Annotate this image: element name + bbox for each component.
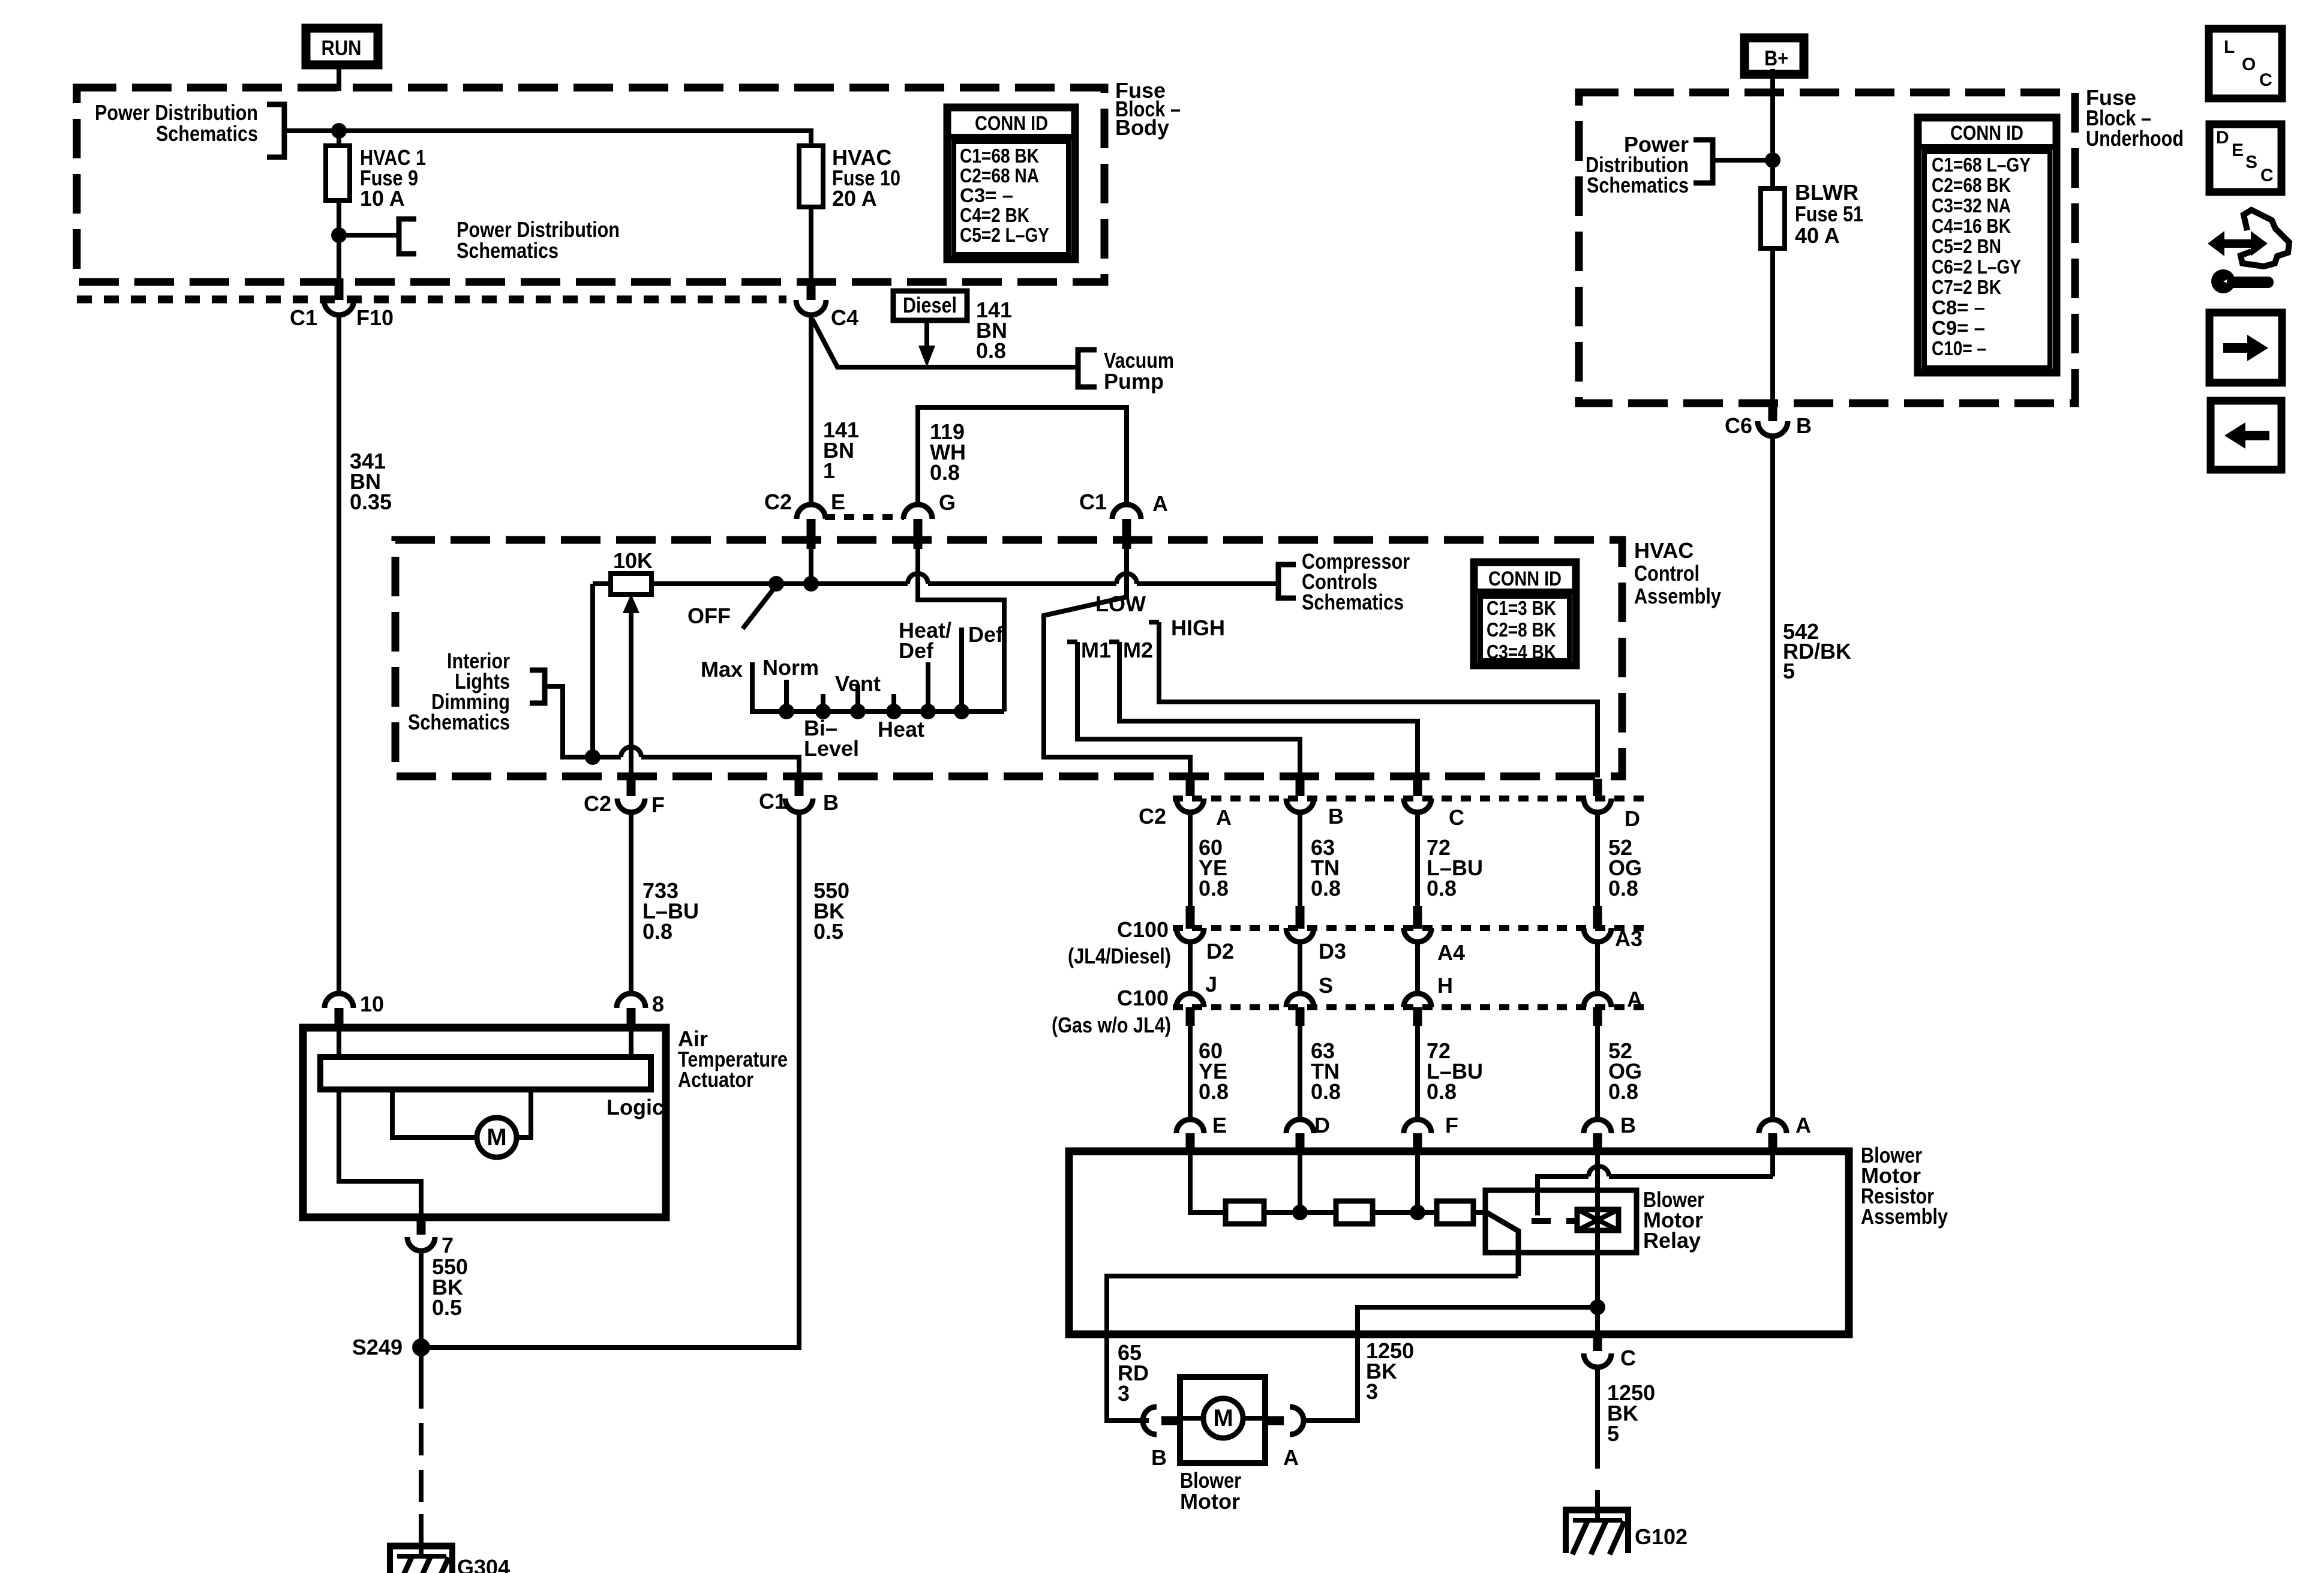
Diesel option box bbox=[893, 291, 967, 320]
svg-text:E: E bbox=[831, 490, 845, 514]
connector pin 10 (actuator) bbox=[325, 992, 384, 1029]
label Blower Motor bbox=[1180, 1468, 1241, 1514]
svg-text:C1: C1 bbox=[759, 789, 786, 813]
svg-text:C: C bbox=[2259, 70, 2272, 90]
svg-text:J: J bbox=[1205, 972, 1217, 996]
svg-text:0.8: 0.8 bbox=[1427, 876, 1457, 900]
svg-text:C10= –: C10= – bbox=[1932, 337, 1986, 359]
wire 52 OG 0.8 (lower) bbox=[1598, 1026, 1642, 1119]
connector pin 7 (actuator) bbox=[407, 1217, 454, 1257]
mode position Def bbox=[954, 622, 1004, 719]
svg-text:C5=2 BN: C5=2 BN bbox=[1932, 235, 2001, 257]
connector row C100 gas dashed line bbox=[1173, 1004, 1647, 1010]
blower motor resistor assembly box bbox=[1069, 1151, 1849, 1334]
label HIGH bbox=[1171, 616, 1225, 640]
connector C6 pin B bbox=[1725, 401, 1812, 438]
svg-text:Control: Control bbox=[1634, 561, 1700, 586]
svg-text:0.5: 0.5 bbox=[432, 1295, 462, 1320]
svg-text:OFF: OFF bbox=[687, 604, 731, 628]
svg-text:5: 5 bbox=[1783, 659, 1795, 683]
svg-text:C8= –: C8= – bbox=[1932, 296, 1985, 319]
wire 60 YE 0.8 (upper) bbox=[1190, 812, 1229, 907]
svg-text:0.35: 0.35 bbox=[350, 490, 392, 514]
svg-text:0.8: 0.8 bbox=[976, 338, 1006, 363]
svg-text:Logic: Logic bbox=[606, 1095, 664, 1119]
svg-text:BLWR: BLWR bbox=[1795, 180, 1858, 205]
svg-text:Assembly: Assembly bbox=[1861, 1204, 1948, 1229]
bracket Vacuum Pump bbox=[1078, 350, 1097, 387]
wire RUN to fuse block bbox=[337, 69, 341, 91]
icon LOC box bbox=[2209, 29, 2282, 98]
wire fuse 51 to C6 bbox=[1770, 248, 1775, 404]
svg-text:C6: C6 bbox=[1725, 413, 1752, 438]
node: junction D tap bbox=[1292, 1205, 1308, 1220]
wire fuse 10 to C4 connector bbox=[809, 207, 813, 283]
blower motor box bbox=[1180, 1377, 1265, 1463]
svg-text:Def: Def bbox=[899, 638, 934, 663]
svg-text:HVAC: HVAC bbox=[1634, 538, 1694, 563]
label Power Distribution Schematics (left) bbox=[95, 100, 258, 146]
fuse F10 (HVAC Fuse 10 20 A) bbox=[799, 146, 823, 207]
svg-text:10: 10 bbox=[360, 992, 384, 1016]
label B (motor pin) bbox=[1151, 1445, 1167, 1470]
blower motor relay outline bbox=[1485, 1190, 1637, 1253]
B+ battery voltage terminal bbox=[1744, 38, 1804, 74]
connector pin B (blower motor) bbox=[1143, 1407, 1181, 1434]
wire 72 L-BU 0.8 (upper) bbox=[1418, 812, 1483, 907]
svg-text:A: A bbox=[1216, 805, 1232, 830]
svg-text:CONN ID: CONN ID bbox=[1488, 568, 1562, 590]
connector pin A (blower motor) bbox=[1264, 1407, 1304, 1434]
svg-text:A: A bbox=[1152, 491, 1168, 516]
svg-text:A4: A4 bbox=[1437, 940, 1465, 965]
svg-text:Schematics: Schematics bbox=[156, 121, 258, 146]
fuse F9 (HVAC 1 Fuse 9 10 A) bbox=[326, 146, 350, 200]
connector C100 (Gas w/o JL4) pins J S H A bbox=[1052, 972, 1643, 1037]
svg-text:Schematics: Schematics bbox=[1302, 590, 1404, 614]
wire 119 WH loop bbox=[918, 407, 1127, 506]
label M1 bbox=[1081, 638, 1111, 662]
resistor R2 bbox=[1336, 1201, 1373, 1224]
wire E to resistor chain bbox=[1190, 1151, 1228, 1212]
connector pin 8 (actuator) bbox=[617, 992, 664, 1029]
svg-text:0.8: 0.8 bbox=[1608, 1079, 1638, 1104]
mode position Heat bbox=[878, 694, 924, 742]
label Fuse Block - Body bbox=[1115, 78, 1181, 140]
label 1250 BK 3 bbox=[1366, 1338, 1414, 1404]
svg-text:Assembly: Assembly bbox=[1634, 584, 1721, 608]
RUN ignition voltage terminal bbox=[306, 28, 378, 65]
label OFF bbox=[687, 604, 731, 628]
actuator motor M bbox=[392, 1089, 531, 1157]
arrow from Diesel box bbox=[918, 320, 935, 367]
label Power Distribution Schematics (mid) bbox=[457, 217, 620, 263]
svg-text:E: E bbox=[1212, 1113, 1227, 1137]
node: junction below fuse 9 bbox=[331, 227, 347, 243]
wire 72 L-BU 0.8 (lower) bbox=[1418, 1026, 1483, 1119]
svg-text:C7=2 BK: C7=2 BK bbox=[1932, 276, 2001, 298]
svg-text:H: H bbox=[1437, 973, 1453, 998]
mode position Vent bbox=[835, 671, 881, 719]
svg-text:B: B bbox=[1151, 1445, 1167, 1470]
svg-text:O: O bbox=[2242, 55, 2256, 74]
svg-text:C3=32 NA: C3=32 NA bbox=[1932, 194, 2011, 217]
svg-text:Max: Max bbox=[701, 657, 743, 682]
svg-text:M1: M1 bbox=[1081, 638, 1111, 662]
svg-text:3: 3 bbox=[1118, 1381, 1130, 1406]
svg-text:(JL4/Diesel): (JL4/Diesel) bbox=[1068, 944, 1171, 968]
svg-text:A: A bbox=[1795, 1113, 1811, 1137]
svg-text:E: E bbox=[2232, 140, 2244, 160]
wire C4 to E and vacuum pump branch bbox=[811, 314, 1078, 506]
node: junction OFF bbox=[768, 576, 784, 592]
svg-text:8: 8 bbox=[652, 992, 664, 1016]
icon DESC box bbox=[2209, 124, 2281, 192]
CONN ID table (underhood) bbox=[1918, 118, 2056, 373]
svg-text:M2: M2 bbox=[1123, 638, 1153, 662]
label HVAC Fuse 10 20 A bbox=[832, 145, 900, 211]
svg-text:B: B bbox=[823, 790, 839, 815]
icon forward arrow box bbox=[2209, 313, 2282, 383]
svg-text:M: M bbox=[1213, 1405, 1233, 1431]
wire interior lights dimming bbox=[545, 686, 799, 776]
wire 1250 BK 3 bbox=[1304, 1307, 1598, 1421]
label 141 BN 1 bbox=[823, 418, 859, 483]
svg-text:Heat: Heat bbox=[878, 717, 924, 742]
label Logic bbox=[606, 1095, 664, 1119]
CONN ID table (HVAC) bbox=[1474, 562, 1576, 665]
svg-text:CONN ID: CONN ID bbox=[1950, 122, 2023, 145]
svg-text:CONN ID: CONN ID bbox=[975, 112, 1048, 135]
connector pin C (resistor assembly) bbox=[1584, 1334, 1636, 1370]
node: junction at RUN feed bbox=[331, 123, 347, 139]
svg-text:3: 3 bbox=[1366, 1379, 1378, 1404]
wire 733 L-BU 0.8 bbox=[629, 812, 633, 995]
svg-text:C5=2 L–GY: C5=2 L–GY bbox=[960, 224, 1049, 246]
svg-text:Relay: Relay bbox=[1643, 1228, 1701, 1253]
relay armature switch bbox=[1487, 1212, 1518, 1276]
connector pin G bbox=[903, 490, 956, 549]
air temperature actuator box bbox=[303, 1028, 666, 1217]
svg-text:C3= –: C3= – bbox=[960, 184, 1013, 206]
resistor R3 bbox=[1437, 1201, 1473, 1224]
wire E pin into switch bbox=[809, 548, 813, 584]
label Blower Motor Resistor Assembly bbox=[1861, 1143, 1948, 1229]
wire G to mode bus bbox=[918, 548, 1004, 712]
label A (motor pin) bbox=[1283, 1445, 1299, 1470]
blower switch HIGH path bbox=[1149, 622, 1598, 778]
dotted pass-through separator bbox=[77, 296, 786, 304]
HVAC control assembly dashed outline bbox=[395, 540, 1622, 776]
wire 63 TN 0.8 (lower) bbox=[1300, 1026, 1341, 1119]
wire RUN feed bus bbox=[284, 131, 811, 148]
svg-text:L: L bbox=[2224, 37, 2235, 57]
svg-text:Schematics: Schematics bbox=[457, 238, 559, 263]
label Power Distribution Schematics (underhood) bbox=[1586, 132, 1689, 197]
svg-text:C2=68 BK: C2=68 BK bbox=[1932, 174, 2011, 196]
svg-text:C2=68 NA: C2=68 NA bbox=[960, 164, 1039, 187]
svg-text:G: G bbox=[939, 490, 956, 515]
connector C4 pin (fuse block) bbox=[796, 278, 858, 330]
actuator input bar bbox=[320, 1028, 651, 1089]
bracket Power Distribution Schematics (mid) bbox=[399, 219, 416, 254]
svg-text:C1: C1 bbox=[1079, 490, 1107, 514]
icon diagnostic wrench bbox=[2208, 210, 2289, 293]
label 542 RD/BK 5 bbox=[1783, 619, 1851, 683]
connector pins E D F B A (resistor assembly) bbox=[1176, 1113, 1811, 1152]
svg-text:B: B bbox=[1620, 1113, 1636, 1137]
svg-text:(Gas w/o JL4): (Gas w/o JL4) bbox=[1052, 1013, 1171, 1037]
wire 542 RD/BK 5 bbox=[1770, 435, 1775, 1119]
label M2 bbox=[1123, 638, 1153, 662]
svg-text:C3=4 BK: C3=4 BK bbox=[1487, 641, 1556, 663]
label Blower Motor Relay bbox=[1643, 1187, 1704, 1253]
connector C2 pin E bbox=[764, 490, 845, 549]
svg-text:Actuator: Actuator bbox=[678, 1067, 753, 1092]
svg-text:D: D bbox=[2216, 128, 2229, 148]
svg-text:LOW: LOW bbox=[1095, 592, 1146, 616]
svg-text:C1: C1 bbox=[290, 305, 317, 330]
wire B+ to fuse 51 bbox=[1770, 69, 1775, 191]
fuse block - underhood dashed outline bbox=[1579, 92, 2075, 403]
bracket Interior Lights Dimming bbox=[530, 670, 545, 703]
connector C100 (JL4/Diesel) pins D2 D3 A4 A3 bbox=[1068, 906, 1643, 968]
svg-text:Underhood: Underhood bbox=[2086, 126, 2184, 151]
svg-text:Fuse 51: Fuse 51 bbox=[1795, 202, 1863, 226]
connector C2 pins A B C D bbox=[1139, 779, 1640, 831]
svg-text:D2: D2 bbox=[1206, 939, 1234, 963]
svg-text:C2=8 BK: C2=8 BK bbox=[1487, 619, 1556, 641]
svg-text:Body: Body bbox=[1115, 115, 1169, 140]
svg-text:F: F bbox=[651, 792, 665, 817]
svg-text:C6=2 L–GY: C6=2 L–GY bbox=[1932, 256, 2021, 278]
connector row dashed line E-G bbox=[825, 514, 904, 520]
label 1250 BK 5 bbox=[1607, 1380, 1655, 1446]
connector C2 pin F bbox=[584, 779, 665, 817]
bracket Power Distribution Schematics (left) bbox=[267, 104, 284, 157]
svg-text:C2: C2 bbox=[1139, 804, 1166, 828]
svg-text:D: D bbox=[1625, 806, 1640, 831]
svg-text:B+: B+ bbox=[1764, 47, 1788, 70]
resistor R1 bbox=[1226, 1201, 1264, 1224]
svg-text:Diesel: Diesel bbox=[903, 293, 957, 317]
mode position Max bbox=[701, 657, 752, 714]
wire wiper to C2-F bbox=[629, 757, 633, 778]
svg-text:20 A: 20 A bbox=[832, 186, 877, 211]
svg-text:M: M bbox=[487, 1124, 506, 1151]
svg-text:B: B bbox=[1328, 804, 1344, 828]
svg-text:C: C bbox=[1449, 805, 1464, 830]
wire R3 to relay bbox=[1473, 1210, 1488, 1215]
blower switch M2 path bbox=[1109, 642, 1418, 778]
wire 550 BK 0.5 to splice bbox=[419, 1251, 424, 1347]
mode switch bus bbox=[752, 709, 1004, 714]
connector C1 pin A bbox=[1079, 490, 1168, 549]
svg-text:D: D bbox=[1314, 1113, 1330, 1137]
wire 63 TN 0.8 (upper) bbox=[1300, 812, 1341, 907]
blower switch LOW path bbox=[1044, 548, 1190, 778]
actuator output path bbox=[339, 1089, 421, 1218]
pot left leg down bbox=[590, 584, 595, 757]
svg-text:S: S bbox=[2245, 152, 2257, 172]
connector C1 pin B bbox=[759, 779, 839, 815]
svg-text:10K: 10K bbox=[613, 548, 653, 573]
svg-text:C1=3 BK: C1=3 BK bbox=[1487, 597, 1556, 619]
mode position Heat/Def bbox=[899, 618, 951, 719]
svg-text:S249: S249 bbox=[352, 1335, 403, 1359]
svg-text:C100: C100 bbox=[1117, 917, 1169, 942]
svg-text:0.8: 0.8 bbox=[1311, 876, 1341, 900]
mode position Norm bbox=[762, 655, 819, 719]
svg-text:C100: C100 bbox=[1117, 986, 1169, 1010]
wire 550 BK 0.5 from C1-B bbox=[421, 812, 799, 1347]
label 733 L-BU 0.8 bbox=[642, 878, 699, 944]
wire B+ to underhood fuse block bbox=[1770, 69, 1775, 96]
svg-text:C: C bbox=[1620, 1346, 1636, 1370]
wire D pin down bbox=[1298, 1151, 1302, 1212]
svg-text:G102: G102 bbox=[1635, 1524, 1688, 1549]
label BLWR Fuse 51 40 A bbox=[1795, 180, 1863, 248]
label 550 BK 0.5 (lower) bbox=[432, 1254, 468, 1320]
svg-text:C4=2 BK: C4=2 BK bbox=[960, 204, 1029, 226]
node: junction pot leg bbox=[585, 749, 600, 765]
svg-text:RUN: RUN bbox=[322, 37, 362, 60]
icon back arrow box bbox=[2211, 401, 2281, 470]
wire R1 to R2 bbox=[1264, 1210, 1338, 1215]
wire fuse 9 to C1 connector bbox=[337, 200, 341, 283]
mode position Bi-Level bbox=[804, 694, 859, 761]
wire F pin down bbox=[1415, 1151, 1420, 1212]
svg-text:Schematics: Schematics bbox=[408, 710, 510, 734]
wire B pin through coil bbox=[1595, 1151, 1600, 1335]
svg-text:40 A: 40 A bbox=[1795, 223, 1840, 248]
svg-text:C2: C2 bbox=[584, 791, 611, 816]
label 341 BN 0.35 bbox=[350, 449, 392, 514]
svg-text:G304: G304 bbox=[457, 1555, 510, 1573]
bracket Power Distribution Schematics (underhood) bbox=[1694, 140, 1713, 183]
svg-text:Norm: Norm bbox=[762, 655, 819, 680]
svg-text:Def: Def bbox=[968, 622, 1004, 647]
wire R2 to R3 bbox=[1373, 1210, 1439, 1215]
svg-text:10 A: 10 A bbox=[360, 186, 405, 211]
label 141 BN 0.8 bbox=[976, 298, 1012, 363]
splice S249 bbox=[352, 1335, 430, 1359]
label LOW bbox=[1095, 592, 1146, 616]
svg-text:Pump: Pump bbox=[1104, 369, 1164, 394]
label Air Temperature Actuator bbox=[678, 1026, 788, 1092]
svg-text:0.5: 0.5 bbox=[813, 919, 843, 944]
svg-text:0.8: 0.8 bbox=[1199, 1079, 1229, 1104]
ground G102 bbox=[1563, 1507, 1688, 1554]
switch lever OFF position bbox=[743, 586, 776, 629]
svg-text:F10: F10 bbox=[356, 305, 394, 330]
svg-text:1: 1 bbox=[823, 458, 835, 483]
label HVAC 1 Fuse 9 10 A bbox=[360, 145, 426, 211]
svg-text:A: A bbox=[1283, 1445, 1299, 1470]
svg-text:S: S bbox=[1319, 973, 1333, 998]
potentiometer 10K bbox=[593, 548, 653, 595]
connector C1 pin F10 bbox=[290, 278, 394, 330]
wires between C100 halves bbox=[1190, 942, 1598, 993]
wiper arrow of 10K bbox=[623, 594, 639, 757]
svg-text:0.8: 0.8 bbox=[1608, 876, 1638, 900]
wire S249 to ground bbox=[419, 1347, 424, 1559]
label Interior Lights Dimming Schematics bbox=[408, 649, 510, 734]
svg-text:0.8: 0.8 bbox=[930, 460, 960, 485]
potentiometer feed line bbox=[651, 574, 1278, 584]
node: junction F tap bbox=[1410, 1205, 1425, 1220]
svg-text:F: F bbox=[1445, 1113, 1458, 1137]
node: junction E feed bbox=[803, 576, 819, 592]
wire junction to bracket bbox=[339, 233, 399, 238]
svg-text:Schematics: Schematics bbox=[1587, 173, 1689, 197]
svg-text:A3: A3 bbox=[1615, 926, 1643, 951]
svg-text:0.8: 0.8 bbox=[1427, 1079, 1457, 1104]
relay coil bbox=[1577, 1209, 1619, 1230]
svg-text:0.8: 0.8 bbox=[1311, 1079, 1341, 1104]
svg-text:0.8: 0.8 bbox=[1199, 876, 1229, 900]
svg-text:0.8: 0.8 bbox=[642, 919, 672, 944]
svg-text:C1=68 BK: C1=68 BK bbox=[960, 145, 1039, 167]
label 119 WH 0.8 bbox=[930, 419, 966, 485]
wire 60 YE 0.8 (lower) bbox=[1190, 1026, 1229, 1119]
svg-text:D3: D3 bbox=[1319, 939, 1346, 963]
svg-text:5: 5 bbox=[1607, 1421, 1619, 1446]
svg-text:C9= –: C9= – bbox=[1932, 317, 1985, 339]
svg-text:Level: Level bbox=[804, 736, 859, 761]
svg-text:C2: C2 bbox=[764, 490, 792, 514]
fuse block - body dashed outline bbox=[77, 88, 1104, 282]
CONN ID table (fuse block body) bbox=[947, 107, 1075, 259]
svg-text:HIGH: HIGH bbox=[1171, 616, 1225, 640]
node: junction motor return bbox=[1590, 1299, 1605, 1315]
svg-text:C4=16 BK: C4=16 BK bbox=[1932, 215, 2011, 237]
label HVAC Control Assembly bbox=[1634, 538, 1721, 608]
wire to fuse 9 bbox=[337, 131, 341, 148]
svg-text:C4: C4 bbox=[831, 305, 858, 330]
label Vacuum Pump bbox=[1104, 348, 1174, 394]
svg-text:Motor: Motor bbox=[1180, 1489, 1240, 1514]
ground G304 bbox=[387, 1543, 510, 1573]
label Compressor Controls Schematics bbox=[1302, 549, 1410, 614]
label 65 RD 3 bbox=[1118, 1340, 1149, 1406]
relay high-speed contact from A bbox=[1538, 1151, 1773, 1215]
bracket Compressor Controls bbox=[1278, 565, 1296, 598]
wire 52 OG 0.8 (upper) bbox=[1598, 812, 1642, 907]
svg-text:B: B bbox=[1796, 413, 1812, 438]
svg-text:C: C bbox=[2260, 166, 2274, 185]
wire relay output to motor bbox=[1107, 1276, 1518, 1421]
blower motor M bbox=[1180, 1398, 1265, 1438]
node: junction at B+ feed bbox=[1765, 152, 1780, 168]
relay actuation dashed link bbox=[1532, 1218, 1577, 1224]
svg-text:7: 7 bbox=[442, 1233, 454, 1257]
blower switch M1 path bbox=[1067, 642, 1300, 778]
fuse F51 (BLWR Fuse 51 40 A) bbox=[1761, 188, 1785, 248]
connector row C100 JL4 dashed line bbox=[1173, 925, 1647, 931]
wire 1250 BK 5 bbox=[1595, 1367, 1600, 1523]
wire junction to bracket (underhood) bbox=[1713, 158, 1773, 163]
svg-text:C1=68 L–GY: C1=68 L–GY bbox=[1932, 154, 2031, 176]
wire 341 BN 0.35 bbox=[337, 314, 341, 995]
label 550 BK 0.5 (upper) bbox=[813, 878, 849, 944]
connector row C2 dashed line bbox=[1173, 795, 1647, 801]
svg-text:A: A bbox=[1627, 987, 1643, 1011]
svg-text:Vent: Vent bbox=[835, 671, 881, 696]
label Fuse Block - Underhood bbox=[2086, 85, 2184, 151]
